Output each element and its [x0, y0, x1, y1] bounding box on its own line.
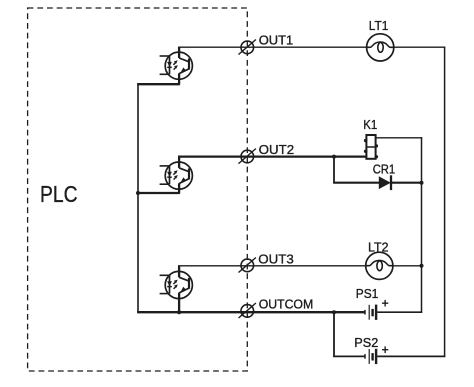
- junction LT2 inner rail: [420, 264, 424, 268]
- wire LT2 right to inner rail: [393, 265, 422, 267]
- svg-text:LT1: LT1: [369, 18, 389, 33]
- wire inner rail vertical (K1/CR1/LT2 to PS1): [421, 137, 423, 313]
- relay coil K1: [364, 135, 378, 159]
- wire OUT1 horizontal (opto U1 collector to LT1): [178, 46, 367, 48]
- wire PS2 negative side horizontal: [333, 355, 365, 357]
- wire branch OUTCOM junction down to PS2: [333, 312, 335, 357]
- optocoupler U1: [160, 47, 193, 84]
- svg-text:PS2: PS2: [354, 335, 378, 350]
- wire OUT3 horizontal (opto U3 collector to LT2): [178, 265, 366, 267]
- wire LT1 right to right rail: [394, 46, 445, 48]
- terminal OUT2: [239, 149, 256, 164]
- svg-text:K1: K1: [363, 117, 377, 132]
- wire U2 emitter horizontal thick: [137, 192, 180, 194]
- svg-text:OUT1: OUT1: [259, 33, 294, 48]
- terminal OUTCOM: [239, 303, 256, 318]
- svg-text:LT2: LT2: [368, 240, 389, 255]
- svg-text:OUTCOM: OUTCOM: [259, 296, 314, 311]
- wire OUTCOM bus horizontal thick (emitter bus to PS1): [137, 311, 365, 313]
- wire PS1 positive side to inner rail: [377, 311, 422, 313]
- wire emitter bus vertical inside PLC: [137, 83, 139, 313]
- terminal OUT1: [239, 40, 256, 55]
- power supply PS1 (battery): [365, 305, 376, 320]
- junction OUTCOM branch: [332, 310, 336, 314]
- wire K1 top to inner rail: [376, 137, 423, 139]
- junction emitter bus U3: [177, 310, 181, 314]
- wire CR1 cathode to inner rail: [391, 182, 422, 184]
- lamp LT2: [366, 252, 393, 279]
- optocoupler U2: [160, 157, 193, 193]
- svg-text:+: +: [382, 297, 389, 311]
- svg-text:PS1: PS1: [356, 286, 379, 301]
- wire right rail vertical (PS2 to LT1): [444, 47, 446, 358]
- lamp LT1: [367, 34, 394, 61]
- svg-text:OUT2: OUT2: [259, 142, 295, 157]
- PLC enclosure (dashed boundary): [28, 8, 248, 371]
- svg-text:PLC: PLC: [40, 181, 78, 207]
- wire CR1 anode horizontal thick: [333, 182, 380, 184]
- junction OUT2 branch: [332, 155, 336, 159]
- optocoupler U3: [160, 266, 193, 312]
- svg-text:+: +: [382, 343, 389, 357]
- junction emitter bus U2: [136, 191, 140, 195]
- wire PS2 positive side to right rail: [377, 355, 445, 357]
- power supply PS2 (battery): [365, 349, 376, 364]
- svg-text:CR1: CR1: [373, 162, 396, 177]
- svg-text:OUT3: OUT3: [258, 251, 294, 266]
- diode CR1: [379, 175, 391, 190]
- wire OUT2 horizontal thick (opto U2 collector to K1 coil): [178, 155, 366, 157]
- terminal OUT3: [239, 258, 256, 273]
- wire branch OUT2 junction down to CR1: [333, 157, 335, 183]
- junction CR1 inner rail: [420, 181, 424, 185]
- wire U1 emitter horizontal thick: [137, 83, 180, 85]
